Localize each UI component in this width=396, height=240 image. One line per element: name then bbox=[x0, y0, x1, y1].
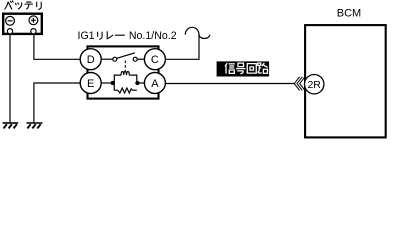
svg-text:A: A bbox=[151, 78, 159, 90]
svg-text:D: D bbox=[87, 54, 95, 66]
svg-text:2R: 2R bbox=[307, 79, 321, 91]
svg-text:No.1/No.2: No.1/No.2 bbox=[129, 30, 177, 42]
svg-text:E: E bbox=[87, 78, 94, 90]
svg-text:IG1: IG1 bbox=[78, 30, 95, 42]
svg-text:C: C bbox=[151, 54, 159, 66]
svg-text:BCM: BCM bbox=[337, 7, 361, 19]
